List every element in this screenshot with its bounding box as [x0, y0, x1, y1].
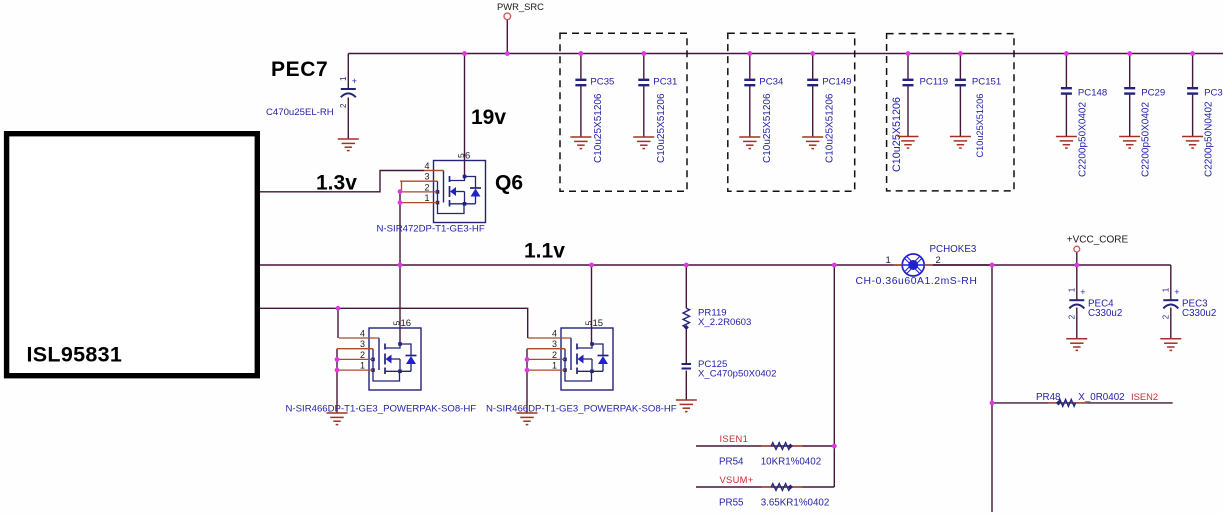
wire PEC7 to ground [347, 98, 349, 140]
ground PC30 [1182, 137, 1203, 149]
svg-text:4: 4 [360, 329, 365, 339]
dashed group box 2 [728, 33, 855, 191]
ground PC151 [950, 137, 971, 149]
transistor Q15 top designator [584, 318, 604, 329]
svg-text:CH-0.36u60A1.2mS-RH: CH-0.36u60A1.2mS-RH [856, 276, 978, 287]
wire PR119 branch from rail [685, 265, 687, 308]
transistor Q6 pin numbers [424, 161, 429, 203]
wire PWR_SRC vertical drop [506, 20, 508, 54]
svg-text:C10u25X51206: C10u25X51206 [656, 93, 667, 163]
wire bus to PC149 [812, 54, 814, 79]
svg-text:+: + [1080, 287, 1085, 297]
svg-text:X_C470p50X0402: X_C470p50X0402 [698, 369, 776, 380]
wire Q15 drain from rail [591, 265, 593, 345]
wire PC31 to ground [643, 86, 645, 137]
wire PC34 to ground [749, 86, 751, 137]
transistor Q16 top designator [392, 318, 412, 329]
wire bus to PC30 [1192, 54, 1194, 88]
svg-text:C10u25X51206: C10u25X51206 [825, 93, 836, 163]
dashed group box 3 [887, 34, 1014, 191]
resistor PR48 symbol [1049, 400, 1088, 407]
svg-text:PC151: PC151 [972, 77, 1001, 88]
wire PC125 to ground [685, 371, 687, 401]
svg-text:N-SIR466DP-T1-GE3_POWERPAK-SO8: N-SIR466DP-T1-GE3_POWERPAK-SO8-HF [486, 404, 677, 415]
wire bus to PC34 [749, 54, 751, 79]
svg-text:X_0R0402: X_0R0402 [1078, 392, 1124, 403]
svg-text:C10u25X51206: C10u25X51206 [891, 97, 903, 172]
svg-text:ISEN2: ISEN2 [1131, 391, 1158, 402]
wire PEC4 branch [1076, 265, 1078, 300]
svg-text:C10u25X51206: C10u25X51206 [975, 94, 985, 158]
transistor Q15 pin numbers [552, 329, 557, 371]
capacitor PC34 symbol [744, 80, 755, 85]
ground PC34 [739, 137, 760, 149]
transistor Q16 symbol body [369, 328, 421, 390]
svg-text:PC148: PC148 [1078, 88, 1107, 99]
svg-text:C470u25EL-RH: C470u25EL-RH [266, 107, 334, 118]
svg-text:C330u2: C330u2 [1088, 308, 1122, 319]
wire PC119 to ground [907, 86, 909, 136]
resistor PR54 symbol [761, 443, 802, 450]
ground PEC4 [1066, 339, 1087, 351]
ground PC149 [802, 137, 823, 149]
wire ISEN1 row [696, 445, 834, 447]
capacitor PC35 symbol [575, 80, 586, 85]
wire PC151 to ground [959, 86, 961, 136]
svg-text:2: 2 [1161, 314, 1170, 319]
svg-text:X_2.2R0603: X_2.2R0603 [698, 317, 751, 328]
svg-text:N-SIR472DP-T1-GE3-HF: N-SIR472DP-T1-GE3-HF [377, 224, 485, 235]
junction dot gate row [336, 306, 341, 311]
wire choke to junction [933, 264, 992, 266]
svg-text:ISEN1: ISEN1 [720, 433, 749, 444]
wire bus to PC31 [643, 54, 645, 79]
wire +VCC_CORE drop [1076, 252, 1078, 265]
resistor PR55 symbol [761, 484, 802, 491]
svg-text:6: 6 [465, 151, 470, 162]
capacitor PC125 symbol [682, 364, 692, 369]
wire PEC3 to ground [1170, 308, 1172, 339]
junction dots Q16 pins [335, 357, 340, 373]
wire Q15 source to ground [526, 349, 528, 413]
svg-text:3: 3 [360, 339, 365, 349]
svg-text:PCHOKE3: PCHOKE3 [930, 244, 977, 255]
ground PC31 [633, 137, 654, 149]
ground PC35 [570, 137, 591, 149]
wire PC149 to ground [812, 86, 814, 137]
capacitor PC119 symbol [903, 80, 914, 85]
dashed group box 1 [560, 33, 687, 191]
capacitor PC151 symbol [955, 80, 966, 85]
svg-text:PC149: PC149 [822, 77, 851, 88]
polarized capacitor PEC3 symbol [1161, 287, 1179, 319]
wire 1.1v rail [259, 264, 902, 266]
junction dot PR48 [990, 401, 995, 406]
wire gate drive row to Q16 and Q15 [259, 308, 528, 338]
svg-text:C2200p50N0402: C2200p50N0402 [1204, 101, 1215, 177]
svg-text:PR48: PR48 [1036, 392, 1061, 403]
svg-text:PC30: PC30 [1204, 88, 1223, 99]
wire bus to PC29 [1129, 54, 1131, 88]
wire PR119 to PC125 [685, 327, 687, 364]
svg-text:N-SIR466DP-T1-GE3_POWERPAK-SO8: N-SIR466DP-T1-GE3_POWERPAK-SO8-HF [286, 404, 477, 415]
wire Q16 gate drop [337, 308, 339, 338]
svg-text:1: 1 [886, 254, 891, 265]
svg-text:3.65KR1%0402: 3.65KR1%0402 [761, 498, 830, 509]
wire PEC4 to ground [1076, 308, 1078, 339]
svg-text:ISL95831: ISL95831 [27, 343, 123, 367]
wire top 19v bus horizontal [348, 53, 1223, 55]
svg-text:PC31: PC31 [653, 77, 677, 88]
svg-text:PC119: PC119 [920, 77, 949, 88]
wire Q6 source pins down to 1.1v rail [399, 192, 401, 265]
svg-text:C10u25X51206: C10u25X51206 [762, 93, 773, 163]
wire bus down to PEC7 [347, 54, 349, 90]
wire VSUM+ row [696, 486, 834, 488]
wire ISEN2 vertical [991, 265, 993, 512]
wire PC35 to ground [580, 86, 582, 137]
ground PC148 [1056, 137, 1077, 149]
svg-text:C2200p50X0402: C2200p50X0402 [1141, 101, 1152, 177]
svg-text:1: 1 [339, 76, 348, 81]
svg-text:19v: 19v [471, 106, 506, 129]
wire bus down to Q6 drain [464, 54, 466, 177]
svg-text:1.3v: 1.3v [316, 172, 357, 195]
wire PR48 ISEN2 row [992, 402, 1173, 404]
wire bus to PC35 [580, 54, 582, 79]
IC U? ISL95831 controller box [7, 134, 258, 376]
svg-text:16: 16 [401, 318, 412, 329]
wire PC29 to ground [1129, 95, 1131, 137]
wire bus to PC151 [959, 54, 961, 79]
svg-text:4: 4 [552, 329, 557, 339]
inductor PCHOKE3 symbol [902, 254, 924, 276]
transistor Q6 symbol body [434, 161, 486, 223]
capacitor PC30 symbol [1187, 88, 1198, 93]
wire bus to PC119 [907, 54, 909, 79]
junction dots Q6 source [398, 189, 403, 205]
svg-text:PEC7: PEC7 [271, 58, 328, 81]
svg-text:1: 1 [552, 361, 557, 371]
svg-text:PR54: PR54 [719, 457, 744, 468]
wire Q16 drain from rail [399, 265, 401, 345]
wire bus to PC148 [1065, 54, 1067, 88]
port +VCC_CORE [1067, 235, 1129, 253]
ground PC29 [1119, 137, 1140, 149]
svg-text:2: 2 [360, 350, 365, 360]
svg-text:PR55: PR55 [719, 498, 744, 509]
wire PEC3 branch [1170, 265, 1172, 300]
wire rail after choke [924, 264, 1171, 266]
ground PEC7 [338, 139, 359, 151]
svg-text:+VCC_CORE: +VCC_CORE [1067, 235, 1129, 246]
ground Q15 source [517, 413, 538, 425]
capacitor PC149 symbol [807, 80, 818, 85]
ground PC125 [676, 400, 697, 412]
capacitor PC148 symbol [1061, 88, 1072, 93]
wire PC30 to ground [1192, 95, 1194, 137]
ground PEC3 [1160, 339, 1181, 351]
svg-text:3: 3 [552, 339, 557, 349]
inductor PCHOKE3 red stubs [894, 264, 934, 266]
ground Q16 source [327, 413, 348, 425]
polarized capacitor PEC4 symbol [1067, 287, 1085, 319]
port PWR_SRC [497, 1, 544, 20]
svg-text:C2200p50X0402: C2200p50X0402 [1077, 101, 1088, 177]
svg-text:1: 1 [1161, 287, 1170, 292]
svg-text:VSUM+: VSUM+ [720, 474, 754, 485]
transistor Q16 pin numbers [360, 329, 365, 371]
transistor Q15 pin leads [527, 338, 571, 370]
svg-text:15: 15 [593, 318, 604, 329]
svg-text:1: 1 [424, 193, 429, 203]
wire Q6 pin4 red lead [424, 170, 444, 172]
resistor PR119 symbol [683, 308, 689, 330]
svg-text:C330u2: C330u2 [1182, 308, 1216, 319]
capacitor PC29 symbol [1124, 88, 1135, 93]
wire ISEN/VSUM vertical from rail [833, 265, 835, 487]
svg-text:+: + [1174, 287, 1179, 297]
svg-text:PC29: PC29 [1141, 88, 1165, 99]
junction dot ISEN1 [832, 444, 837, 449]
wire Q6 pin3 bend [401, 181, 403, 191]
svg-text:1: 1 [1067, 287, 1076, 292]
svg-text:10KR1%0402: 10KR1%0402 [761, 457, 821, 468]
wire 1.3v gate drive from ISL95831 to Q6 pin4 [259, 171, 424, 192]
svg-text:2: 2 [936, 254, 941, 265]
svg-text:C10u25X51206: C10u25X51206 [593, 93, 604, 163]
svg-text:PC34: PC34 [759, 77, 784, 88]
transistor Q15 symbol body [561, 328, 613, 390]
transistor Q6 top designator [456, 151, 470, 162]
svg-text:Q6: Q6 [495, 172, 523, 195]
transistor Q6 pin leads [400, 171, 444, 203]
junction dots Q15 pins [525, 357, 530, 373]
svg-text:1: 1 [360, 361, 365, 371]
transistor Q16 pin leads [337, 338, 379, 370]
wire Q16 source to ground [336, 349, 338, 413]
polarized capacitor PEC7 symbol [339, 76, 357, 108]
svg-text:4: 4 [424, 161, 429, 171]
junction dots on 1.1v rail [398, 263, 1080, 268]
svg-text:2: 2 [1067, 314, 1076, 319]
svg-text:2: 2 [339, 103, 348, 108]
svg-text:PC35: PC35 [590, 77, 614, 88]
svg-text:2: 2 [552, 350, 557, 360]
svg-text:3: 3 [424, 172, 429, 182]
junction dots on 19v bus [462, 51, 1195, 56]
ground PC119 [898, 137, 919, 149]
svg-text:PWR_SRC: PWR_SRC [497, 1, 544, 12]
svg-text:1.1v: 1.1v [524, 240, 565, 263]
svg-text:2: 2 [424, 182, 429, 192]
svg-text:+: + [352, 76, 357, 86]
capacitor PC31 symbol [638, 80, 649, 85]
wire PC148 to ground [1065, 95, 1067, 137]
